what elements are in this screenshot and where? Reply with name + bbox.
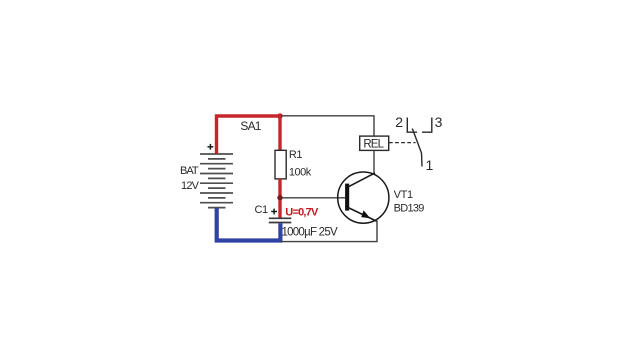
node: top junction dot	[277, 113, 283, 119]
svg-text:100k: 100k	[289, 166, 312, 178]
relay contact pin 2	[407, 118, 417, 133]
svg-text:2: 2	[395, 114, 403, 130]
svg-text:1: 1	[426, 157, 434, 173]
capacitor C1 plates	[269, 218, 292, 222]
wire: red R1 bottom lead down to C1	[278, 179, 281, 218]
svg-text:VT1: VT1	[394, 189, 413, 201]
relay actuation dashed link	[389, 142, 416, 144]
relay coil REL	[360, 136, 389, 150]
wire: base wire to transistor	[281, 197, 345, 199]
svg-text:1000µF 25V: 1000µF 25V	[282, 227, 338, 239]
svg-text:SA1: SA1	[240, 119, 261, 133]
node: base junction dot	[277, 195, 282, 200]
svg-text:BAT: BAT	[180, 165, 199, 177]
battery BAT plates	[200, 154, 233, 208]
svg-text:C1: C1	[255, 204, 269, 216]
svg-text:REL: REL	[363, 139, 384, 151]
relay lever pin 1	[412, 129, 422, 167]
wire: relay to collector	[373, 150, 375, 174]
wire: emitter down and bottom rail to blue junction	[281, 221, 378, 242]
wire: top rail black to relay	[281, 116, 374, 137]
svg-text:U=0,7V: U=0,7V	[285, 206, 319, 218]
svg-text:3: 3	[435, 114, 443, 130]
svg-text:R1: R1	[289, 149, 303, 161]
relay contact pin 3	[422, 118, 432, 133]
wire: red R1 top lead	[278, 116, 281, 151]
transistor VT1	[338, 172, 389, 223]
svg-text:12V: 12V	[181, 180, 200, 192]
capacitor plus sign	[271, 209, 277, 215]
wire: red positive lead battery to top rail and SA1	[217, 116, 281, 154]
battery positive terminal +	[208, 144, 214, 150]
resistor R1	[275, 150, 286, 179]
svg-text:BD139: BD139	[394, 202, 425, 214]
wire: blue negative return	[217, 208, 281, 241]
